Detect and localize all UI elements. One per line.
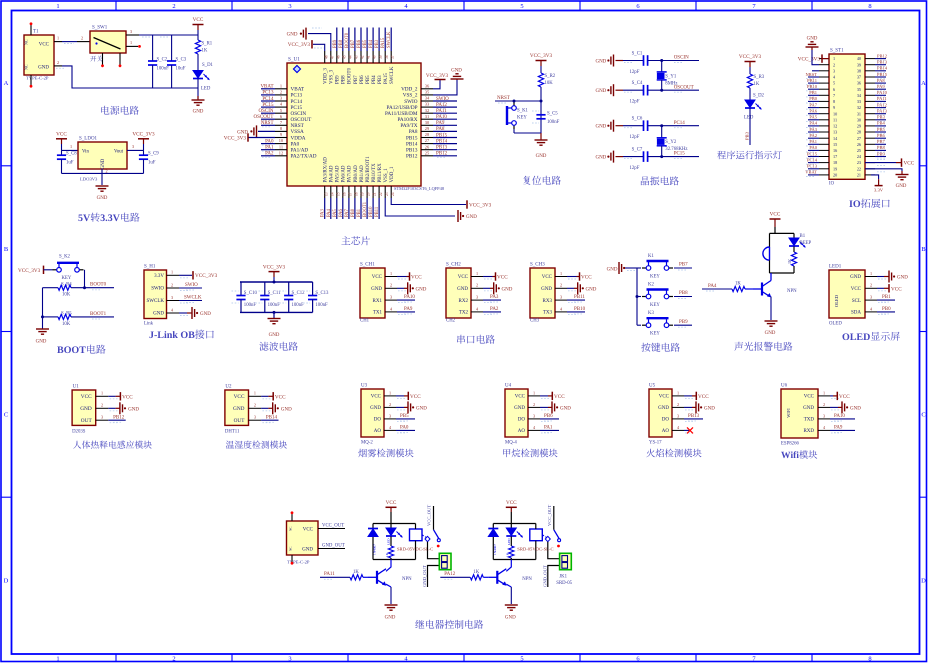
svg-text:PC15: PC15 <box>807 151 818 156</box>
chip right pin 25 PB12 <box>421 155 433 157</box>
svg-text:3.3V: 3.3V <box>874 188 884 193</box>
ground at chip top-left <box>305 28 307 40</box>
svg-text:100nF: 100nF <box>292 303 305 308</box>
module U3 MQ-2 <box>361 389 384 437</box>
svg-text:KEY: KEY <box>650 303 660 308</box>
svg-text:1: 1 <box>56 656 59 663</box>
ST1 pin22 to GND <box>865 169 902 171</box>
svg-text:17: 17 <box>833 154 837 159</box>
ST1 left pin 19 <box>819 168 829 170</box>
pushbutton K2 KEY <box>637 296 641 298</box>
svg-text:12: 12 <box>833 124 837 129</box>
svg-text:YS-17: YS-17 <box>649 441 662 446</box>
title 火焰检测模块 <box>646 449 655 457</box>
svg-text:ESP8266: ESP8266 <box>781 442 799 447</box>
svg-text:VCC_3V3: VCC_3V3 <box>530 53 553 59</box>
chip top pin 39 PB3 <box>378 51 380 63</box>
svg-text:PB12: PB12 <box>436 152 448 157</box>
svg-text:CH1: CH1 <box>360 319 370 324</box>
ground at chip VSSA <box>256 125 258 137</box>
H1 pin1 to VCC_3V3 <box>179 274 192 276</box>
U4 VCC power <box>540 395 548 397</box>
ST1 right pin 36 <box>865 82 875 84</box>
capacitor S_C3 10uF <box>171 35 173 61</box>
svg-text:VDD_3: VDD_3 <box>324 68 329 84</box>
svg-text:U1: U1 <box>73 385 80 390</box>
module U6 ESP8266 WiFi <box>781 389 818 438</box>
svg-text:SRD-05VDC-SL-C: SRD-05VDC-SL-C <box>397 547 433 552</box>
svg-text:19: 19 <box>361 192 365 196</box>
svg-text:3: 3 <box>101 415 103 420</box>
net label PA0 <box>396 429 415 431</box>
title Wifi模块 <box>781 452 790 458</box>
ST1 left pin 5 <box>819 82 829 84</box>
net label PB14 <box>261 419 278 421</box>
svg-text:PB14: PB14 <box>436 139 448 144</box>
svg-text:VDD_1: VDD_1 <box>390 166 395 182</box>
svg-text:BEEP: BEEP <box>800 241 812 246</box>
svg-text:VCC: VCC <box>659 395 670 400</box>
svg-text:PA0: PA0 <box>265 139 274 144</box>
svg-text:GND: GND <box>80 406 92 412</box>
ST1 right pin 28 <box>865 131 875 133</box>
ST1 left pin 4 <box>819 76 829 78</box>
svg-text:3: 3 <box>560 295 562 300</box>
svg-text:3: 3 <box>476 295 478 300</box>
U2 VCC power <box>261 395 268 397</box>
svg-text:Vin: Vin <box>82 149 90 154</box>
svg-text:GND_OUT: GND_OUT <box>422 565 427 587</box>
LED1 VCC pin <box>877 287 884 289</box>
svg-text:1: 1 <box>56 3 59 10</box>
emitter wire to ground <box>386 584 391 587</box>
svg-text:PB3: PB3 <box>375 39 380 48</box>
svg-text:PA0: PA0 <box>809 145 817 150</box>
svg-text:PB7: PB7 <box>351 39 356 48</box>
svg-text:2: 2 <box>823 402 825 407</box>
svg-text:30: 30 <box>857 117 861 122</box>
chip top pin 38 PA15 <box>384 51 386 63</box>
connector T1 TYPE-C-2P <box>24 35 54 75</box>
svg-text:S_U1: S_U1 <box>288 57 300 63</box>
net label PB10 <box>567 311 585 313</box>
svg-text:10K: 10K <box>545 81 554 86</box>
svg-text:BOOT1: BOOT1 <box>363 201 368 217</box>
ST1 right pin 40 <box>865 58 875 60</box>
screw terminal connector <box>439 553 451 569</box>
svg-text:3: 3 <box>533 413 535 418</box>
chip bottom pin 18 PB0/AD <box>354 186 356 198</box>
ST1 right pin 33 <box>865 100 875 102</box>
svg-text:18: 18 <box>833 160 837 165</box>
svg-text:12: 12 <box>279 150 283 155</box>
U2 GND <box>261 407 268 409</box>
svg-text:SDA: SDA <box>851 311 861 316</box>
svg-text:NRST: NRST <box>291 123 305 129</box>
svg-text:JK1: JK1 <box>559 575 567 580</box>
svg-text:GND: GND <box>765 331 776 336</box>
svg-text:S_C4: S_C4 <box>632 81 643 86</box>
svg-text:PA2: PA2 <box>809 133 817 138</box>
svg-text:21: 21 <box>373 192 377 196</box>
svg-text:PB1: PB1 <box>882 295 891 300</box>
svg-text:1K: 1K <box>385 552 389 557</box>
svg-text:S_C7: S_C7 <box>632 147 643 152</box>
resistor 1K of LED <box>390 537 392 547</box>
svg-text:PB9: PB9 <box>336 75 341 84</box>
svg-text:PB3: PB3 <box>745 131 750 140</box>
svg-text:1: 1 <box>101 391 103 396</box>
svg-text:3: 3 <box>389 413 391 418</box>
svg-text:PA2: PA2 <box>265 152 274 157</box>
svg-text:OUT: OUT <box>81 418 93 424</box>
svg-text:PB3: PB3 <box>877 115 886 120</box>
ST1 right pin 35 <box>865 88 875 90</box>
svg-text:PA10: PA10 <box>834 414 845 419</box>
ST1 right pin 34 <box>865 94 875 96</box>
svg-text:TYPE-C-2P: TYPE-C-2P <box>287 559 310 564</box>
ground of reset circuit <box>540 133 542 140</box>
ground of filter <box>273 312 275 318</box>
relay indicator LED <box>510 524 512 529</box>
svg-text:15: 15 <box>833 142 837 147</box>
svg-text:S_D1: S_D1 <box>202 63 214 68</box>
svg-text:2: 2 <box>533 402 535 407</box>
svg-text:2: 2 <box>81 36 83 41</box>
svg-text:NC: NC <box>289 527 293 531</box>
svg-text:26: 26 <box>857 142 861 147</box>
svg-text:S_R2: S_R2 <box>545 74 556 79</box>
ST1 right pin 29 <box>865 125 875 127</box>
svg-text:WIFI: WIFI <box>786 408 791 418</box>
svg-text:13: 13 <box>833 130 837 135</box>
svg-text:3: 3 <box>132 144 134 149</box>
pushbutton S_K1 KEY <box>513 102 515 106</box>
capacitor S_C13 100nF <box>312 282 314 296</box>
svg-text:VCC_3V3: VCC_3V3 <box>132 132 155 138</box>
collector wire <box>506 560 511 572</box>
chip left pin 11 PA1/AD <box>275 149 287 151</box>
svg-text:B: B <box>921 246 926 253</box>
svg-text:PA10: PA10 <box>404 295 415 300</box>
svg-text:PB13: PB13 <box>877 60 888 65</box>
svg-text:VBAT: VBAT <box>260 85 273 90</box>
svg-text:37: 37 <box>857 75 861 80</box>
svg-text:GND: GND <box>153 312 164 317</box>
relay coil K <box>410 529 423 541</box>
svg-text:GND_OUT: GND_OUT <box>322 543 345 548</box>
module U4 MQ-4 <box>505 389 528 437</box>
svg-text:32: 32 <box>857 105 861 110</box>
svg-text:PB0: PB0 <box>351 208 356 217</box>
net label NRST <box>495 100 541 102</box>
svg-text:PA15: PA15 <box>384 73 389 84</box>
title 甲烷检测模块 <box>503 449 510 457</box>
chip top pin 46 PB9 <box>336 51 338 63</box>
svg-text:2: 2 <box>870 283 872 288</box>
svg-text:2: 2 <box>280 90 282 95</box>
ground right of ST1 <box>901 171 903 175</box>
svg-text:PA4: PA4 <box>327 208 332 217</box>
svg-text:PB2/BOOT1: PB2/BOOT1 <box>366 156 371 183</box>
svg-text:PB14: PB14 <box>266 416 278 421</box>
U6 GND <box>830 406 838 408</box>
svg-text:S_C1: S_C1 <box>632 51 643 56</box>
relay bottom rail <box>373 559 416 561</box>
svg-text:PA11: PA11 <box>877 96 887 101</box>
svg-text:GND: GND <box>586 287 597 292</box>
svg-text:VCC: VCC <box>56 132 67 138</box>
svg-text:2: 2 <box>57 60 59 65</box>
chip bottom pin 13 PA3/RX/AD <box>324 186 326 198</box>
ST1 left pin 13 <box>819 131 829 133</box>
svg-text:PB7: PB7 <box>354 75 359 84</box>
svg-text:OSCOUT: OSCOUT <box>253 115 273 120</box>
svg-text:5: 5 <box>833 81 835 86</box>
svg-text:PA4: PA4 <box>708 284 717 289</box>
svg-text:10uF: 10uF <box>176 67 186 72</box>
collector wire <box>386 560 391 572</box>
ground GND of LDO <box>96 185 109 187</box>
svg-text:39: 39 <box>379 55 383 59</box>
svg-text:28: 28 <box>857 130 861 135</box>
svg-text:VCC: VCC <box>122 394 133 400</box>
svg-text:GND: GND <box>451 69 462 74</box>
svg-text:PB11: PB11 <box>574 295 585 300</box>
svg-text:PB12: PB12 <box>406 154 418 160</box>
U6 VCC power <box>830 395 833 397</box>
svg-text:VCC: VCC <box>458 275 469 280</box>
net label PA2 <box>483 311 501 313</box>
svg-text:PA9: PA9 <box>436 121 445 126</box>
pin 1 VCC of T1 <box>54 41 62 43</box>
bottom rail of LDO block <box>62 172 144 174</box>
svg-text:RXD: RXD <box>803 429 814 434</box>
svg-text:PB0/AD: PB0/AD <box>354 165 359 183</box>
ground of relay unit <box>505 604 518 606</box>
capacitor S_C10 100nF <box>240 282 242 296</box>
SW1 pin 1 <box>126 45 138 47</box>
svg-text:SWIO: SWIO <box>151 287 164 292</box>
svg-text:PA8: PA8 <box>409 129 418 135</box>
wire rail to collector <box>770 273 772 281</box>
svg-text:1uF: 1uF <box>66 161 74 166</box>
svg-text:PA5/AD: PA5/AD <box>336 165 341 182</box>
svg-text:100nF: 100nF <box>244 303 257 308</box>
chip top pin 42 PB6 <box>360 51 362 63</box>
ST1 left pin 12 <box>819 125 829 127</box>
svg-text:VCC: VCC <box>554 394 565 400</box>
pushbutton K1 KEY <box>637 267 641 269</box>
svg-text:VDD_2: VDD_2 <box>401 87 418 93</box>
svg-text:PA10: PA10 <box>436 115 447 120</box>
svg-text:14: 14 <box>330 192 334 196</box>
chip bottom pin 20 PB2/BOOT1 <box>366 186 368 198</box>
net label GND_OUT <box>318 548 345 550</box>
svg-text:PB10/TX: PB10/TX <box>372 163 377 183</box>
transistor NPN relay driver <box>496 571 498 584</box>
svg-text:1N4007: 1N4007 <box>493 544 497 555</box>
resistor S_R1 1K <box>197 35 199 40</box>
ST1 left pin 15 <box>819 143 829 145</box>
svg-text:VCC: VCC <box>275 394 286 400</box>
connector S_CH1 <box>360 268 385 318</box>
svg-text:40: 40 <box>857 56 861 61</box>
svg-text:VCC: VCC <box>804 395 815 400</box>
svg-text:KEY: KEY <box>517 116 527 121</box>
net label PB12 <box>108 419 125 421</box>
svg-text:MQ-4: MQ-4 <box>505 441 517 446</box>
net label PB9 <box>674 324 692 326</box>
svg-text:3: 3 <box>288 3 291 10</box>
svg-text:1: 1 <box>70 144 72 149</box>
svg-text:2: 2 <box>833 62 835 67</box>
switch S_SW1 <box>90 31 126 53</box>
svg-text:PC14: PC14 <box>262 97 274 102</box>
svg-text:D: D <box>4 578 9 585</box>
svg-text:PA9/TX: PA9/TX <box>400 123 417 129</box>
svg-text:VCC_3V3: VCC_3V3 <box>224 136 247 142</box>
chip left pin 2 PC13 <box>275 94 287 96</box>
svg-text:NPN: NPN <box>402 577 412 582</box>
svg-text:100nF: 100nF <box>268 303 281 308</box>
svg-text:PA11: PA11 <box>436 109 447 114</box>
svg-text:PB1/AD: PB1/AD <box>360 165 365 183</box>
chip bottom pin 21 PB10/TX <box>372 186 374 198</box>
svg-text:PA8: PA8 <box>436 127 445 132</box>
title 复位电路 <box>523 176 530 185</box>
svg-text:PA1: PA1 <box>809 139 817 144</box>
svg-text:GND: GND <box>595 89 606 94</box>
net label PA9 <box>397 311 415 313</box>
LED1 GND pin <box>877 276 884 278</box>
svg-text:PA3/RX/AD: PA3/RX/AD <box>324 157 329 183</box>
CH3 GND <box>567 287 574 289</box>
chip bottom pin 22 PB11/RX <box>378 186 380 198</box>
svg-text:GND: GND <box>128 407 139 412</box>
svg-text:OUT: OUT <box>234 418 246 424</box>
svg-text:5: 5 <box>520 3 523 10</box>
relay contact lever <box>422 535 427 538</box>
svg-text:PB11: PB11 <box>375 206 380 217</box>
svg-text:PB6: PB6 <box>877 133 886 138</box>
pin 2 GND of T1 <box>54 65 62 67</box>
wire VCC_OUT contact <box>553 506 555 530</box>
svg-text:1: 1 <box>130 40 132 45</box>
svg-text:31: 31 <box>857 111 861 116</box>
svg-text:D: D <box>921 578 926 585</box>
svg-text:PA1: PA1 <box>265 146 274 151</box>
U1 VCC power <box>108 395 115 397</box>
wire VCC to LDO Vin <box>62 149 79 151</box>
ST1 right pin 31 <box>865 113 875 115</box>
ST1 right pin 30 <box>865 119 875 121</box>
svg-text:SRD-05: SRD-05 <box>556 581 572 586</box>
wire VSS_2 up to GND <box>433 80 457 95</box>
svg-text:PB4: PB4 <box>877 121 886 126</box>
left rail of key circuit <box>636 268 638 325</box>
svg-text:GND: GND <box>269 333 280 338</box>
svg-text:GND: GND <box>658 406 669 411</box>
svg-text:1: 1 <box>171 270 173 275</box>
svg-text:OSCIN: OSCIN <box>258 109 273 114</box>
ST1 right pin 22 <box>865 168 875 170</box>
svg-text:2: 2 <box>560 283 562 288</box>
svg-text:PB13: PB13 <box>688 414 700 419</box>
svg-text:S_C6: S_C6 <box>632 117 643 122</box>
crystal S_Y1 8MHz <box>661 61 663 72</box>
svg-text:D203S: D203S <box>72 429 86 434</box>
filter bottom rail <box>240 311 313 313</box>
title 电源电路 <box>101 106 109 115</box>
svg-text:RX1: RX1 <box>373 299 383 304</box>
svg-text:PB12: PB12 <box>877 53 887 58</box>
svg-text:BOOT0: BOOT0 <box>90 283 107 288</box>
svg-text:1: 1 <box>280 83 282 88</box>
svg-text:DO: DO <box>662 418 670 423</box>
svg-text:BOOT0: BOOT0 <box>348 67 353 84</box>
chip top pin 44 BOOT0 <box>348 51 350 63</box>
base resistor 1K <box>470 575 483 580</box>
svg-text:GND: GND <box>502 287 513 292</box>
svg-text:OLED: OLED <box>829 322 842 327</box>
ST1 pin23 to VCC <box>865 162 896 164</box>
svg-text:1: 1 <box>533 390 535 395</box>
wire VDD_1 to VCC_3V3 right <box>391 198 466 205</box>
svg-text:NC: NC <box>289 547 293 551</box>
chip top pin 41 PB5 <box>366 51 368 63</box>
svg-text:VCC: VCC <box>698 394 709 400</box>
svg-text:VSS_1: VSS_1 <box>384 168 389 183</box>
resistor 1K of LED <box>510 537 512 547</box>
svg-text:VCC: VCC <box>193 17 204 23</box>
svg-text:VCC_3V3: VCC_3V3 <box>469 203 492 209</box>
svg-text:10K: 10K <box>62 293 71 298</box>
svg-text:VCC: VCC <box>770 212 781 218</box>
svg-text:A: A <box>921 80 926 87</box>
svg-text:U4: U4 <box>505 384 512 389</box>
svg-text:PA5: PA5 <box>809 115 817 120</box>
svg-text:PA8: PA8 <box>877 78 885 83</box>
svg-text:19: 19 <box>833 166 837 171</box>
chip right pin 29 PA8 <box>421 130 433 132</box>
svg-text:PB8: PB8 <box>342 75 347 84</box>
svg-text:1K: 1K <box>754 82 760 87</box>
wire key right terminal down to BOOT0 line <box>84 270 86 288</box>
svg-text:GND_OUT: GND_OUT <box>543 565 548 587</box>
svg-text:GND: GND <box>370 406 381 411</box>
svg-text:GND: GND <box>897 276 908 281</box>
svg-text:16: 16 <box>833 148 837 153</box>
svg-text:VSSA: VSSA <box>291 129 305 135</box>
svg-text:VCC: VCC <box>891 286 902 292</box>
U5 VCC power <box>684 395 692 397</box>
wire VDD_2 up to VCC_3V3 <box>433 80 440 89</box>
svg-text:PB15: PB15 <box>436 133 448 138</box>
module U2 DHT11 <box>225 390 249 425</box>
ST1 left pin 18 <box>819 162 829 164</box>
net label PA9 RXD <box>830 429 855 431</box>
svg-text:1K: 1K <box>202 49 208 54</box>
chip left pin 1 VBAT <box>275 88 287 90</box>
svg-text:SWCLK: SWCLK <box>147 299 165 304</box>
relay top rail <box>373 523 416 525</box>
svg-text:LED: LED <box>507 538 511 545</box>
svg-text:PB11/RX: PB11/RX <box>378 163 383 183</box>
svg-text:OSCIN: OSCIN <box>674 56 689 61</box>
svg-text:PB0: PB0 <box>809 96 818 101</box>
svg-text:1: 1 <box>389 390 391 395</box>
